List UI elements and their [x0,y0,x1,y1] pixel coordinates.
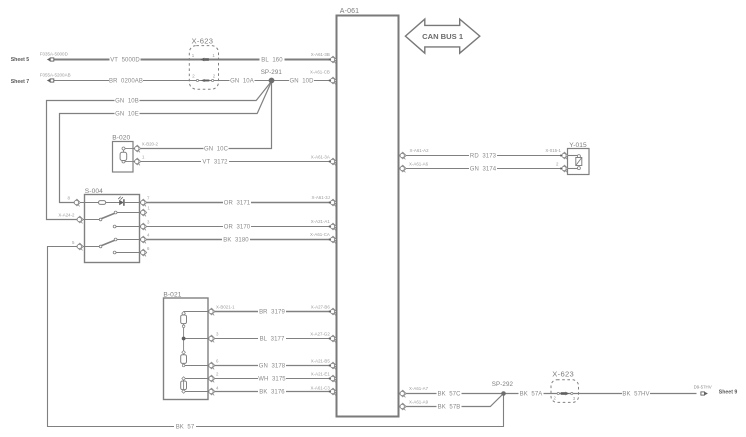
svg-text:Sheet 7: Sheet 7 [11,79,30,85]
svg-text:X-A27-B6: X-A27-B6 [311,305,331,310]
svg-text:Sheet 5: Sheet 5 [11,57,30,63]
svg-text:VT 3172: VT 3172 [202,160,228,166]
svg-text:GN 3174: GN 3174 [470,167,497,173]
svg-text:X-A61-3B: X-A61-3B [311,52,330,57]
svg-text:X-A61-A6: X-A61-A6 [409,161,429,166]
svg-text:X-A61-A7: X-A61-A7 [409,386,429,391]
svg-text:GN 3178: GN 3178 [259,364,286,370]
svg-text:Sheet 9: Sheet 9 [719,390,738,396]
svg-text:BK 57B: BK 57B [438,405,461,411]
svg-text:X-B021-1: X-B021-1 [216,305,235,310]
svg-text:BK 57: BK 57 [176,425,195,431]
svg-text:F055A-5200AB: F055A-5200AB [40,73,71,78]
svg-text:BL 3177: BL 3177 [260,337,285,343]
svg-text:X-A61-A2: X-A61-A2 [410,148,430,153]
svg-text:F035A-5000D: F035A-5000D [40,51,69,56]
svg-text:X-A61-CB: X-A61-CB [310,69,330,74]
svg-text:CAN BUS 1: CAN BUS 1 [422,32,464,41]
svg-text:X-A61-C3: X-A61-C3 [311,386,331,391]
svg-text:GN 10B: GN 10B [115,99,139,105]
svg-text:BR 3179: BR 3179 [259,310,285,316]
svg-text:D9-57HV: D9-57HV [694,385,712,390]
svg-text:GN 10C: GN 10C [204,147,229,153]
svg-text:GN 10E: GN 10E [115,112,139,118]
svg-text:BL 160: BL 160 [261,58,283,64]
svg-text:BK 57C: BK 57C [437,392,461,398]
svg-text:OR 3170: OR 3170 [224,225,251,231]
svg-text:BR 0200AB: BR 0200AB [109,79,143,85]
svg-text:X-015-1: X-015-1 [545,148,561,153]
svg-text:GN 10A: GN 10A [230,79,254,85]
svg-text:X-B20-2: X-B20-2 [142,141,159,146]
svg-text:GN 10D: GN 10D [289,79,314,85]
svg-text:X-A61-3A: X-A61-3A [311,154,330,159]
svg-text:RD 3173: RD 3173 [470,154,497,160]
svg-text:X-623: X-623 [552,369,574,378]
svg-text:X-A21-A1: X-A21-A1 [311,219,331,224]
svg-text:OR 3171: OR 3171 [224,201,251,207]
svg-text:B-020: B-020 [112,135,130,142]
svg-text:X-A21-E1: X-A21-E1 [311,372,331,377]
svg-text:Y-015: Y-015 [569,142,587,149]
svg-text:B-021: B-021 [163,292,181,299]
svg-text:WH 3175: WH 3175 [258,377,286,383]
svg-text:BK 3176: BK 3176 [259,390,285,396]
svg-text:X-623: X-623 [192,36,214,45]
svg-text:SP-292: SP-292 [492,381,514,388]
svg-text:BK 57HV: BK 57HV [622,392,649,398]
svg-text:X-A24-2: X-A24-2 [58,212,75,217]
svg-text:X-A61-3J: X-A61-3J [311,195,329,200]
svg-text:X-A27-G2: X-A27-G2 [310,332,330,337]
svg-text:VT 5000D: VT 5000D [110,58,140,64]
svg-text:SP-291: SP-291 [261,69,283,76]
svg-text:BK 57A: BK 57A [520,392,543,398]
svg-text:X-A61-CA: X-A61-CA [310,232,330,237]
svg-text:BK 3180: BK 3180 [223,238,249,244]
svg-text:X-A61-A9: X-A61-A9 [409,400,429,405]
svg-text:S-004: S-004 [85,188,103,195]
svg-text:A-061: A-061 [340,8,359,15]
svg-text:X-A21-B5: X-A21-B5 [311,358,331,363]
